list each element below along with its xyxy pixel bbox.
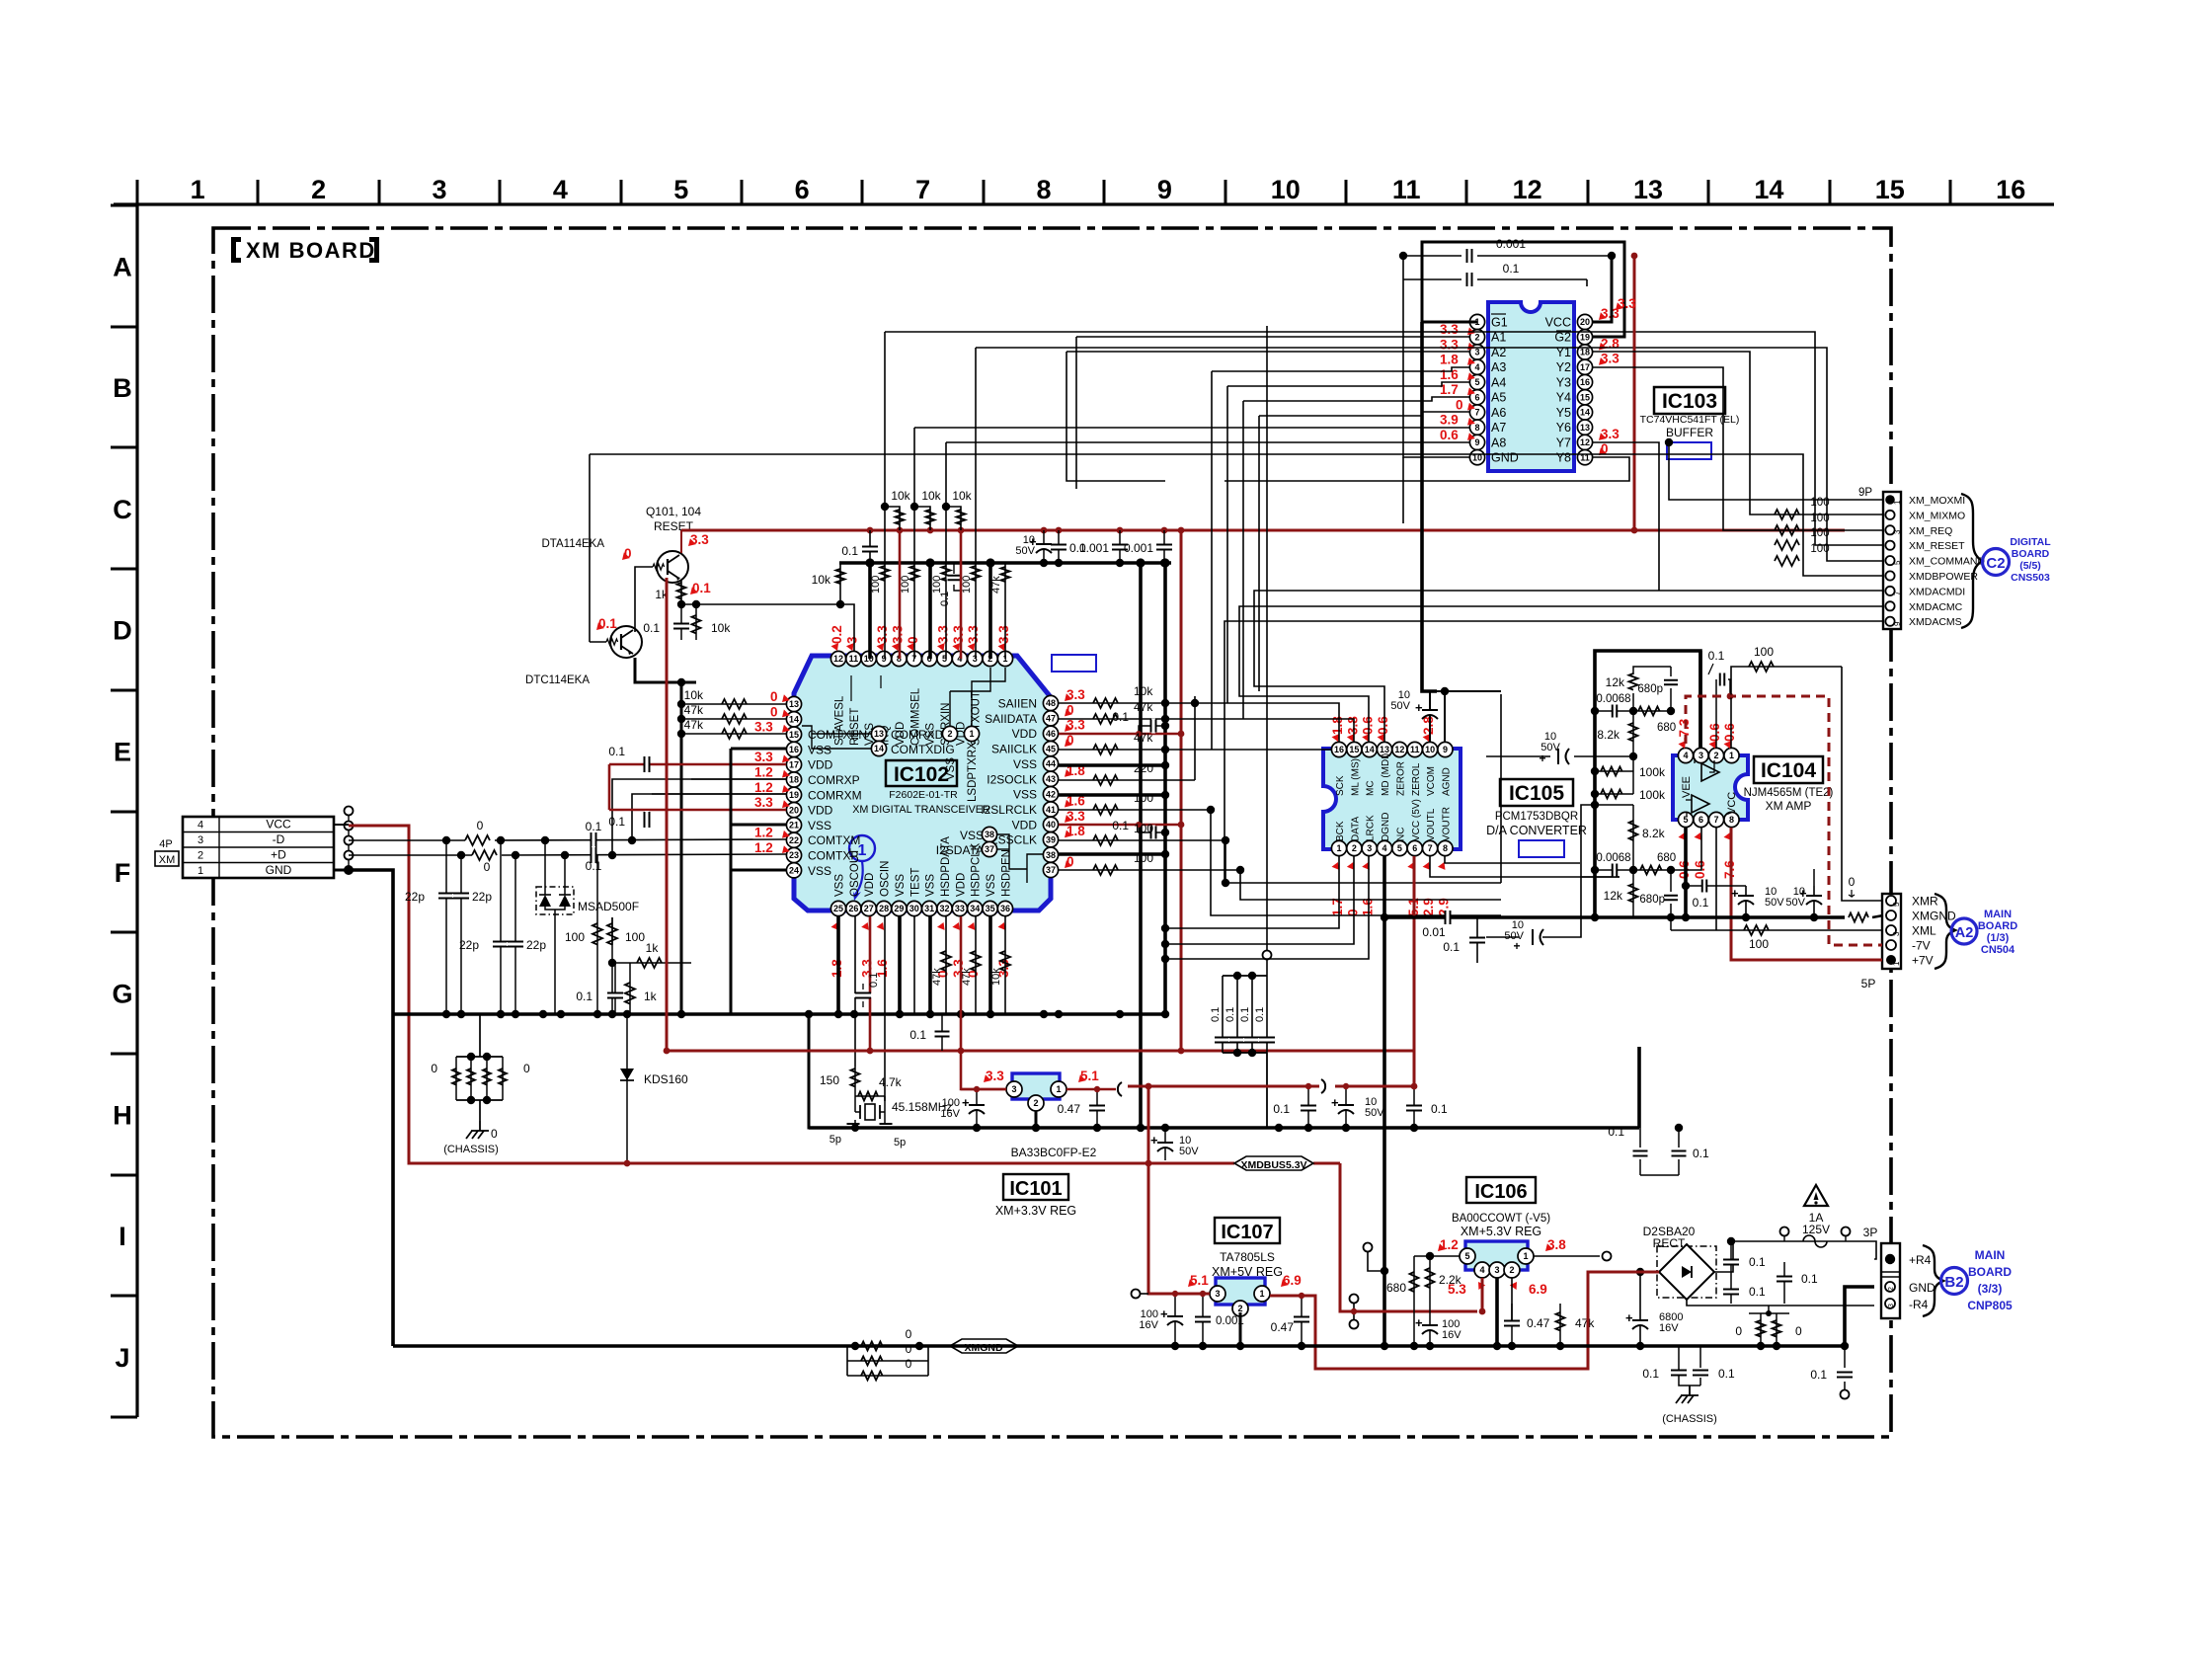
svg-text:0.1: 0.1: [643, 621, 660, 635]
wires VSS pins 29 31 35 thick down: [898, 916, 902, 1014]
red value 0.1 at Q104 base: [596, 622, 604, 630]
connector XM pin numbers and names: [197, 818, 292, 878]
svg-text:7: 7: [1713, 815, 1718, 825]
svg-text:3.3: 3.3: [1066, 809, 1085, 824]
svg-text:20: 20: [789, 805, 799, 815]
svg-text:2: 2: [1352, 843, 1357, 853]
capacitor 0.1 and resistor 10k at Q104: [680, 604, 682, 640]
svg-text:15: 15: [1349, 745, 1359, 754]
resistor 0 on -D line: [465, 835, 490, 845]
red rail 1100 to right: [1128, 1085, 1319, 1088]
capacitor 10 50V at VCOM: [1430, 691, 1501, 742]
svg-text:29: 29: [894, 904, 904, 913]
svg-text:8.2k: 8.2k: [1642, 827, 1666, 840]
svg-text:680p: 680p: [1637, 683, 1663, 695]
svg-text:0: 0: [523, 1062, 530, 1075]
svg-text:6: 6: [795, 175, 810, 204]
svg-text:5p: 5p: [829, 1134, 841, 1146]
svg-text:+7V: +7V: [1912, 954, 1934, 968]
capacitor 0.1 above IC103: [1403, 278, 1461, 280]
svg-text:+: +: [1331, 1095, 1339, 1110]
svg-text:100: 100: [1134, 851, 1153, 865]
svg-text:VDD: VDD: [808, 758, 833, 772]
red value 0 at Q101 base: [622, 552, 630, 560]
svg-text:33: 33: [955, 904, 965, 913]
svg-text:39: 39: [1046, 834, 1056, 844]
wire IC104 pin7 down: [1715, 828, 1717, 930]
wire A2 route: [1066, 351, 1469, 353]
buffer IC103 body: [1488, 302, 1574, 471]
svg-text:0: 0: [431, 1062, 437, 1075]
red vertical to IC107: [1148, 1086, 1210, 1294]
red wire pin33 VDD down: [961, 916, 1006, 1089]
svg-text:IC106: IC106: [1474, 1181, 1527, 1203]
svg-text:DGND: DGND: [1381, 813, 1391, 841]
svg-text:ZEROR: ZEROR: [1395, 761, 1406, 796]
svg-text:IC101: IC101: [1009, 1178, 1062, 1200]
red bus vertical at 1196: [1180, 530, 1183, 1051]
svg-text:3: 3: [1215, 1289, 1220, 1299]
wire -R4: [1687, 1300, 1874, 1306]
svg-text:22p: 22p: [526, 938, 546, 952]
svg-text:45: 45: [1046, 744, 1056, 753]
IC102 bottom pin red voltage values: [829, 922, 1011, 978]
capacitor 0.1 at IC104 top: [1715, 679, 1717, 748]
svg-text:5.1: 5.1: [1190, 1273, 1209, 1288]
svg-text:0.001: 0.001: [1216, 1315, 1244, 1327]
svg-text:3.3: 3.3: [1618, 296, 1636, 311]
svg-text:3: 3: [1888, 1304, 1895, 1307]
red value 3.3 at Q101 emitter: [688, 538, 696, 546]
svg-text:NC: NC: [1395, 828, 1406, 841]
capacitor 0.1 at pin40: [1139, 825, 1165, 832]
svg-text:14: 14: [1365, 745, 1375, 754]
svg-text:VSS: VSS: [834, 874, 846, 897]
wires BCK DATA LRCK down left: [1165, 856, 1339, 928]
capacitor 0.1 at pin4 line: [954, 585, 961, 591]
svg-text:0.01: 0.01: [1422, 925, 1446, 939]
red wire IC101 output with jump: [1066, 1088, 1116, 1091]
svg-text:100: 100: [931, 576, 943, 594]
svg-text:1: 1: [969, 729, 974, 739]
svg-text:0.1: 0.1: [1431, 1102, 1448, 1116]
svg-text:10k: 10k: [711, 621, 731, 635]
svg-text:10: 10: [1425, 745, 1435, 754]
wire pin3 SCTXOUT up and right to XM_COMMAND: [976, 348, 1883, 561]
svg-text:12k: 12k: [1604, 889, 1623, 903]
svg-text:GND: GND: [1491, 451, 1519, 465]
svg-text:3P: 3P: [1863, 1226, 1878, 1239]
svg-text:0.001: 0.001: [1079, 541, 1109, 555]
svg-text:HSDPEN: HSDPEN: [1000, 849, 1012, 897]
svg-text:40: 40: [1046, 820, 1056, 830]
svg-text:A6: A6: [1491, 406, 1506, 420]
wire thick filter ground spine: [1595, 651, 1700, 917]
svg-text:CNS503: CNS503: [2011, 572, 2050, 584]
svg-text:Y2: Y2: [1556, 360, 1571, 374]
svg-text:50V: 50V: [1015, 545, 1035, 557]
svg-text:1: 1: [1892, 961, 1901, 966]
svg-text:3: 3: [1474, 348, 1479, 357]
svg-text:3.3: 3.3: [890, 625, 905, 644]
svg-text:Y6: Y6: [1556, 421, 1571, 435]
svg-text:DIGITAL: DIGITAL: [2010, 536, 2051, 548]
svg-text:32: 32: [940, 904, 950, 913]
red value 3.3 at VCC IC103: [1616, 302, 1623, 310]
svg-text:2: 2: [1474, 332, 1479, 342]
svg-text:1.2: 1.2: [754, 780, 773, 795]
svg-text:220: 220: [1134, 761, 1153, 775]
svg-text:+: +: [1625, 1310, 1633, 1325]
wire with 10 50V cap to filter: [1486, 755, 1550, 757]
wire rectifier left input red join: [1588, 1271, 1659, 1274]
resistor 47k row pin47: [1059, 718, 1165, 720]
svg-text:47k: 47k: [1134, 731, 1153, 745]
wire XMDACMS long: [1224, 621, 1883, 883]
svg-text:+: +: [1150, 1133, 1158, 1148]
svg-text:9P: 9P: [1858, 487, 1872, 499]
capacitor 0.1 between IC104 pins: [1686, 885, 1723, 887]
svg-text:+: +: [1539, 752, 1545, 765]
rail 1142 thick: [809, 1128, 1639, 1132]
connector CN503 signal names: [1909, 495, 1985, 628]
svg-text:VSS: VSS: [960, 829, 984, 842]
wire pin5 vertical: [945, 442, 947, 659]
svg-text:BUFFER: BUFFER: [1666, 426, 1713, 439]
svg-text:IC105: IC105: [1509, 782, 1564, 805]
svg-text:6: 6: [1412, 843, 1417, 853]
svg-text:4: 4: [197, 820, 203, 831]
svg-text:47: 47: [1046, 714, 1056, 724]
svg-text:1k: 1k: [646, 941, 660, 955]
wires VSS pins 16 21 24 thick: [731, 748, 786, 751]
svg-text:0.47: 0.47: [1058, 1102, 1081, 1116]
svg-text:15: 15: [1580, 392, 1590, 402]
svg-text:XMGND: XMGND: [1912, 910, 1956, 923]
wire IC106 pin1 out: [1534, 1255, 1600, 1257]
red wire at IC103 right: [1633, 256, 1636, 530]
svg-text:SAIIEN: SAIIEN: [998, 697, 1037, 711]
IC104 red voltage values: [1679, 741, 1687, 749]
svg-text:8: 8: [1443, 843, 1448, 853]
svg-text:XMR: XMR: [1912, 895, 1938, 909]
svg-text:BOARD: BOARD: [2012, 548, 2050, 560]
capacitor 0.1 between osc lines: [854, 993, 872, 997]
svg-text:15: 15: [1875, 175, 1905, 204]
svg-text:VSS: VSS: [1013, 757, 1037, 771]
svg-text:7: 7: [1893, 591, 1902, 595]
IC106 pins: [1460, 1248, 1475, 1264]
svg-text:1: 1: [1523, 1251, 1528, 1261]
svg-text:XMDACMDI: XMDACMDI: [1909, 586, 1965, 597]
red wire pin40 VDD: [1059, 824, 1181, 827]
svg-text:2: 2: [1237, 1304, 1242, 1313]
svg-text:DTA114EKA: DTA114EKA: [542, 538, 605, 550]
svg-text:17: 17: [1580, 362, 1590, 372]
svg-text:5: 5: [1397, 843, 1402, 853]
IC106 label box: [1466, 1177, 1536, 1203]
IC102 top pins 12..1: [830, 651, 1012, 666]
svg-text:1k: 1k: [644, 990, 658, 1003]
red rail 1181 junction: [867, 1048, 874, 1055]
svg-text:0: 0: [1735, 1324, 1742, 1338]
crystal 45.158MHz: [854, 1096, 856, 1112]
wire pin34 HSDPCLK down with 47k: [975, 916, 977, 1014]
IC105 bottom pins 1-8: [1331, 840, 1453, 855]
IC102 internal sub pins VSS LSDPTXRX: [942, 726, 957, 741]
svg-text:0: 0: [770, 689, 778, 704]
A2 circled reference: [1951, 918, 1977, 944]
electrolytic 100 16V at IC101 input: [976, 1089, 978, 1128]
svg-text:100: 100: [1134, 791, 1153, 805]
svg-text:XML: XML: [1912, 924, 1936, 938]
IC103 red voltage values right: [1599, 306, 1619, 456]
svg-text:1.7: 1.7: [1330, 898, 1345, 916]
wire XM_MOXMI: [1669, 442, 1883, 500]
svg-text:0: 0: [1066, 702, 1074, 717]
svg-text:5: 5: [1464, 1251, 1469, 1261]
svg-text:0.6: 0.6: [1707, 723, 1722, 742]
capacitor 680p upper: [1670, 667, 1672, 676]
svg-text:+: +: [962, 1095, 970, 1110]
wire VSS pin44 thick: [1059, 763, 1165, 767]
svg-text:100: 100: [1134, 822, 1153, 835]
svg-text:XM BOARD: XM BOARD: [246, 238, 376, 263]
svg-text:38: 38: [985, 830, 994, 839]
svg-text:3.8: 3.8: [1547, 1237, 1566, 1252]
svg-text:A1: A1: [1491, 331, 1506, 345]
svg-text:VCOM: VCOM: [1426, 766, 1437, 796]
svg-text:16V: 16V: [1659, 1322, 1679, 1334]
connector CN503 C2 9P box: [1883, 492, 1901, 629]
svg-text:10k: 10k: [921, 489, 941, 503]
svg-text:0.1: 0.1: [692, 581, 711, 595]
svg-text:0.2: 0.2: [829, 625, 844, 644]
capacitor 0.1 pair cluster right: [1639, 1128, 1641, 1148]
IC105 label box: [1500, 779, 1573, 806]
wire pin26 OSCOUT down to crystal: [854, 916, 856, 1067]
svg-text:0: 0: [906, 1357, 912, 1371]
svg-text:COMTXM: COMTXM: [808, 833, 860, 847]
svg-text:G2: G2: [1554, 331, 1571, 345]
svg-text:0: 0: [906, 636, 920, 644]
svg-text:0: 0: [906, 1342, 912, 1356]
svg-text:DTC114EKA: DTC114EKA: [525, 674, 590, 686]
resistor 47k at IC106: [1559, 1304, 1561, 1346]
wire long vertical to test point: [1266, 326, 1268, 951]
svg-text:31: 31: [924, 904, 934, 913]
svg-text:5: 5: [1474, 377, 1479, 387]
svg-text:2: 2: [197, 850, 203, 862]
svg-text:SAIICLK: SAIICLK: [991, 743, 1037, 756]
svg-text:(5/5): (5/5): [2019, 560, 2041, 572]
red wire IC107 output: [1270, 1272, 1660, 1369]
svg-text:LSDPTXRX: LSDPTXRX: [967, 742, 979, 802]
svg-text:680: 680: [1386, 1281, 1406, 1295]
ground bus rail left: [393, 1012, 1165, 1016]
svg-text:1: 1: [1259, 1289, 1264, 1299]
svg-text:VSS: VSS: [945, 757, 957, 780]
svg-text:0.1: 0.1: [1273, 1102, 1290, 1116]
svg-text:2: 2: [1509, 1265, 1514, 1275]
svg-text:3.3: 3.3: [1440, 322, 1459, 337]
wire pin38 thick: [1059, 852, 1165, 856]
svg-text:MSAD500F: MSAD500F: [578, 900, 639, 913]
svg-text:9: 9: [882, 654, 887, 664]
svg-text:(1/3): (1/3): [1987, 932, 2010, 944]
svg-text:BA33BC0FP-E2: BA33BC0FP-E2: [1011, 1146, 1097, 1159]
wire XMDACMDI long: [1659, 590, 1883, 592]
svg-text:VDD: VDD: [955, 873, 967, 897]
wire Y2 to XM_REQ: [1593, 367, 1883, 530]
IC102 bottom pin names: [834, 836, 1013, 897]
svg-text:37: 37: [1046, 865, 1056, 875]
resistor 8.2k upper: [1632, 711, 1634, 756]
svg-text:1.6: 1.6: [1440, 367, 1459, 382]
svg-text:ZEROL: ZEROL: [1411, 762, 1422, 796]
capacitor 22p pair A: [445, 840, 447, 1014]
svg-text:0: 0: [484, 860, 491, 874]
svg-text:0.1: 0.1: [1112, 819, 1129, 832]
svg-text:5P: 5P: [1861, 977, 1876, 990]
svg-text:0.0068: 0.0068: [1596, 852, 1630, 864]
svg-text:13: 13: [1633, 175, 1663, 204]
IC105 pin names: [1335, 753, 1452, 841]
svg-text:4: 4: [1474, 362, 1479, 372]
svg-text:3.3: 3.3: [754, 750, 773, 764]
svg-text:+: +: [1415, 700, 1423, 715]
svg-text:2: 2: [311, 175, 326, 204]
rectifier diamond: [1659, 1244, 1714, 1300]
red 3.3V rail: [681, 529, 1845, 532]
svg-text:5p: 5p: [894, 1137, 906, 1148]
red wire into IC101 pin3: [961, 1088, 1006, 1091]
svg-text:3.3: 3.3: [966, 625, 981, 644]
svg-text:0: 0: [1066, 733, 1074, 748]
svg-text:+: +: [1160, 1307, 1168, 1321]
C2 circled reference: [1983, 549, 2010, 576]
resistor 100 row pin41: [1059, 809, 1211, 811]
wire branch -D to COMRXM: [632, 794, 786, 840]
svg-text:XMDBUS5.3V: XMDBUS5.3V: [1240, 1159, 1306, 1171]
wire pin32 HSDPDATA down with 47k: [945, 916, 947, 1014]
svg-text:3.3: 3.3: [986, 1069, 1004, 1083]
svg-text:3.3: 3.3: [1601, 352, 1619, 366]
svg-text:0.0068: 0.0068: [1596, 693, 1630, 705]
svg-text:16: 16: [789, 745, 799, 754]
capacitor 680p lower: [1670, 870, 1672, 892]
border ruler left line: [135, 204, 138, 1417]
svg-text:0: 0: [491, 1127, 498, 1141]
svg-text:0: 0: [1456, 397, 1463, 412]
svg-text:XM: XM: [159, 854, 176, 866]
IC101 red values: [984, 1074, 991, 1082]
wire pin9 vertical: [884, 332, 886, 659]
capacitor 0.001 at IC107 input: [1202, 1294, 1204, 1346]
svg-text:0.1: 0.1: [1693, 1147, 1709, 1160]
resistor 100 at IC104 top to XMR: [1731, 667, 1842, 748]
wire DGND thick down: [1382, 856, 1386, 1346]
wire XMDACMS right vertical: [1501, 731, 1519, 900]
column ticks and numbers 1-16: [137, 175, 2025, 204]
IC102 left pin names: [808, 728, 867, 878]
svg-text:4P: 4P: [159, 838, 172, 850]
rail 1142 right extension: [1384, 1126, 1639, 1130]
capacitor row 10 50V 0.1 0.001 0.001: [1043, 530, 1045, 563]
svg-text:0.1: 0.1: [586, 859, 602, 873]
svg-text:100: 100: [565, 930, 585, 944]
svg-text:100: 100: [1749, 937, 1769, 951]
svg-text:CNP805: CNP805: [1967, 1299, 2013, 1312]
svg-text:21: 21: [789, 821, 799, 831]
svg-text:Q101, 104: Q101, 104: [646, 505, 701, 518]
svg-text:ML (MS): ML (MS): [1350, 758, 1361, 796]
IC102 bottom pins 25..36: [830, 901, 1012, 915]
svg-text:0.001: 0.001: [1124, 541, 1153, 555]
IC107 red values: [1188, 1279, 1196, 1287]
wire XMDBPOWER long: [590, 454, 1883, 576]
capacitor 0.0068 lower row: [1595, 869, 1671, 871]
svg-text:VDD: VDD: [1012, 727, 1038, 741]
svg-text:XMGND: XMGND: [964, 1342, 1003, 1354]
wire IC101 pin2 down: [1035, 1111, 1038, 1128]
svg-text:GND: GND: [1909, 1281, 1935, 1295]
svg-text:VDD: VDD: [808, 804, 833, 818]
XMGND ground rail: [393, 1344, 1845, 1348]
capacitor 0.1 at fuse: [1783, 1262, 1785, 1304]
IC103 right pins 20-11: [1577, 314, 1592, 464]
svg-text:(CHASSIS): (CHASSIS): [1662, 1413, 1717, 1425]
svg-text:16V: 16V: [1442, 1329, 1461, 1341]
svg-text:47k: 47k: [1134, 700, 1153, 714]
svg-text:50V: 50V: [1765, 897, 1784, 909]
svg-text:16: 16: [1334, 745, 1344, 754]
svg-text:TEST: TEST: [909, 868, 921, 897]
svg-text:F: F: [115, 858, 131, 888]
resistor array 0 ohm to chassis: [431, 1014, 530, 1141]
svg-text:A2: A2: [1955, 925, 1974, 941]
svg-text:IC107: IC107: [1221, 1222, 1273, 1243]
svg-text:0.001: 0.001: [1496, 237, 1526, 251]
red wire VCC +7V: [1731, 828, 1882, 960]
svg-text:3: 3: [1367, 843, 1372, 853]
svg-text:BOARD: BOARD: [1968, 1265, 2012, 1279]
svg-text:100: 100: [1810, 497, 1829, 509]
resistor 0 on +D line: [472, 850, 497, 860]
svg-text:+: +: [1415, 1315, 1423, 1330]
svg-text:16: 16: [1996, 175, 2025, 204]
svg-text:47k: 47k: [1575, 1316, 1595, 1330]
diode KDS160: [626, 1014, 628, 1163]
svg-text:I2SDATA: I2SDATA: [936, 843, 984, 857]
svg-text:Y8: Y8: [1556, 451, 1571, 465]
svg-text:6: 6: [1474, 392, 1479, 402]
svg-text:TA7805LS: TA7805LS: [1220, 1250, 1275, 1264]
svg-text:0.47: 0.47: [1527, 1316, 1550, 1330]
svg-text:J: J: [115, 1343, 129, 1373]
svg-text:0.1: 0.1: [909, 1028, 926, 1042]
svg-text:0.1: 0.1: [1503, 262, 1520, 276]
svg-text:Y3: Y3: [1556, 375, 1571, 389]
svg-text:A3: A3: [1491, 360, 1506, 374]
svg-text:47k: 47k: [931, 968, 943, 986]
wire Y1 to XM_MIXMO: [1593, 352, 1883, 515]
svg-text:A4: A4: [1491, 375, 1506, 389]
capacitor 100 16V at IC106: [1421, 1326, 1439, 1331]
svg-text:VSS: VSS: [808, 819, 831, 832]
svg-text:Y7: Y7: [1556, 436, 1571, 449]
svg-text:680: 680: [1657, 722, 1676, 734]
